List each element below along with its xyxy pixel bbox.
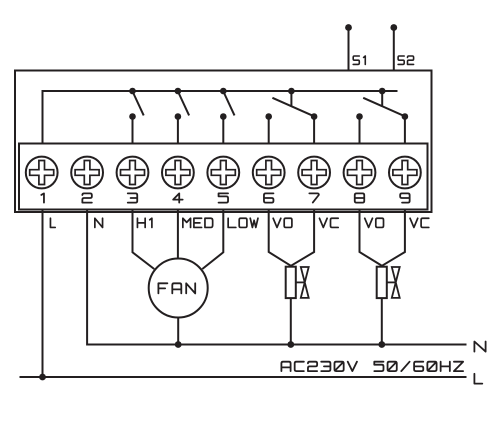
wire valve 1 to N rail xyxy=(290,298,292,344)
label FAN xyxy=(158,283,195,293)
node junction valve2/N xyxy=(378,341,385,348)
label LOW (terminal 5) xyxy=(228,218,258,227)
switch SW-V2 (terminals 8/9) xyxy=(356,88,408,144)
wire terminal 9 to valve 2 xyxy=(382,210,405,266)
label N rail xyxy=(474,342,485,352)
node junction fan/N xyxy=(175,341,182,348)
label AC230V 50/60HZ xyxy=(281,362,463,371)
terminal screw 4 xyxy=(162,157,194,189)
pin number 4 xyxy=(173,193,183,202)
valve actuator V1 body xyxy=(286,267,296,298)
wire L bus from terminal 1 xyxy=(43,91,398,144)
pin number 7 xyxy=(309,193,319,202)
pin number 6 xyxy=(264,193,274,202)
label VC (terminal 7) xyxy=(319,218,338,227)
pin number 5 xyxy=(219,193,229,202)
terminal screw 8 xyxy=(344,157,376,189)
terminal screw 6 xyxy=(253,157,285,189)
switch SW-MED (terminal 4) xyxy=(175,88,190,144)
wire terminal 1 to L rail xyxy=(42,210,44,378)
terminal screw 5 xyxy=(207,157,239,189)
label N (terminal 2) xyxy=(95,218,103,227)
label H1 (terminal 3) xyxy=(137,218,151,227)
outer module box xyxy=(15,71,432,213)
terminal screw 2 xyxy=(71,157,103,189)
valve V1 bowtie xyxy=(301,267,309,298)
terminal screw 1 xyxy=(26,157,58,189)
switch SW-V1 (terminals 6/7) xyxy=(265,88,317,144)
label L (terminal 1) xyxy=(50,218,55,227)
valve V2 bowtie xyxy=(392,267,400,298)
motor FAN M1 xyxy=(149,259,208,318)
pin number 8 xyxy=(355,193,365,202)
switch SW-LOW (terminal 5) xyxy=(220,88,235,144)
valve actuator V2 body xyxy=(377,267,387,298)
node S2 dot xyxy=(390,24,397,31)
pin number 1 xyxy=(41,193,44,202)
label MED (terminal 4) xyxy=(183,218,213,227)
node junction L/terminal1 xyxy=(39,374,46,381)
label VO (terminal 8) xyxy=(365,218,384,227)
label VO (terminal 6) xyxy=(273,218,292,227)
terminal screw 7 xyxy=(298,157,330,189)
switch SW-H1 (terminal 3) xyxy=(129,88,144,144)
wire terminal 6 to valve 1 xyxy=(269,210,291,266)
node S1 dot xyxy=(345,24,352,31)
wire terminal 3 to fan xyxy=(133,210,155,270)
pin number 3 xyxy=(128,193,138,202)
label S1 xyxy=(353,56,365,64)
wire terminal 8 to valve 2 xyxy=(360,210,382,266)
wire terminal 5 to fan xyxy=(202,210,223,270)
wire valve V1 stem xyxy=(296,281,305,283)
wire valve 2 to N rail xyxy=(381,298,383,344)
label S2 xyxy=(398,56,414,64)
wire S2 lead xyxy=(393,28,395,71)
wire L rail xyxy=(20,376,467,378)
wire fan to N rail xyxy=(177,318,179,345)
label L rail xyxy=(474,374,482,384)
wire S1 lead xyxy=(348,28,350,71)
terminal screw 9 xyxy=(389,157,421,189)
terminal block xyxy=(19,144,428,210)
wire terminal 7 to valve 1 xyxy=(291,210,314,266)
pin number 9 xyxy=(400,193,410,202)
wire terminal 4 to fan xyxy=(177,210,179,259)
wire valve V2 stem xyxy=(387,281,396,283)
node junction valve1/N xyxy=(287,341,294,348)
pin number 2 xyxy=(82,193,92,202)
wire terminal 2 to N rail xyxy=(87,210,466,345)
label VC (terminal 9) xyxy=(410,218,429,227)
terminal screw 3 xyxy=(117,157,149,189)
